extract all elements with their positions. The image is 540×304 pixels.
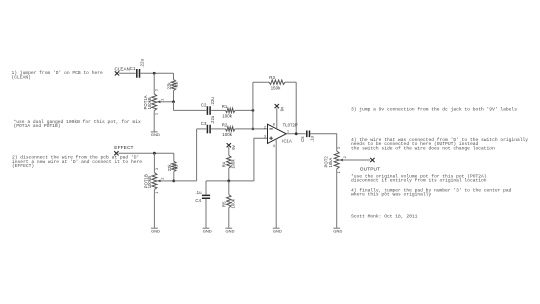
wire C3 to R2	[211, 128, 225, 130]
svg-text:Scott Monk: Oct 18, 2011: Scott Monk: Oct 18, 2011	[351, 214, 418, 220]
POT2 wiper arrow	[341, 159, 370, 161]
svg-text:3: 3	[264, 135, 266, 139]
svg-text:R5: R5	[222, 201, 227, 207]
svg-text:.22u: .22u	[210, 115, 215, 124]
wire corner down to R6	[173, 73, 175, 79]
potentiometer POT1B zigzag	[152, 173, 157, 190]
svg-text:10kA: 10kA	[328, 157, 333, 167]
node CLEAN X terminal	[115, 71, 119, 75]
potentiometer POT1A zigzag	[152, 94, 157, 111]
POT1A bottom lead	[153, 111, 155, 132]
svg-text:.22u: .22u	[139, 58, 144, 67]
POT1B bottom lead	[153, 189, 155, 228]
svg-text:150k: 150k	[271, 85, 281, 90]
svg-text:1: 1	[287, 129, 289, 133]
resistor R1 zigzag	[226, 108, 236, 112]
svg-text:GND: GND	[151, 132, 160, 137]
svg-text:C3: C3	[201, 121, 207, 126]
svg-text:GND: GND	[273, 229, 282, 234]
svg-text:.22u: .22u	[210, 97, 215, 106]
node junction at pin2 line	[252, 128, 255, 131]
note 7 text (right)	[351, 188, 512, 198]
POT2 bottom lead	[336, 169, 338, 228]
svg-text:TL072P: TL072P	[283, 123, 298, 128]
svg-text:R1: R1	[222, 104, 228, 109]
svg-text:C5: C5	[300, 136, 305, 142]
node output junction	[295, 132, 298, 135]
note 6 text (right)	[351, 173, 487, 183]
svg-text:IC1A: IC1A	[282, 139, 292, 144]
svg-text:8: 8	[273, 123, 275, 127]
wire junction down to pin2 line	[252, 110, 254, 128]
svg-text:100k: 100k	[222, 132, 232, 137]
potentiometer POT2 zigzag	[334, 151, 339, 169]
svg-text:OUTPUT: OUTPUT	[360, 167, 380, 173]
potentiometer POT1B top lead	[153, 153, 155, 172]
wire corner down to R7	[173, 153, 175, 161]
svg-text:3) jump a 9v connection from t: 3) jump a 9v connection from the dc jack…	[351, 106, 517, 112]
svg-text:GND: GND	[226, 229, 235, 234]
note 1 text	[12, 70, 104, 80]
resistor R4 zigzag	[227, 155, 231, 168]
wire C1 to corner above R6	[141, 72, 174, 74]
svg-text:the switch side of the wire do: the switch side of the wire does not cha…	[351, 145, 495, 151]
ground under C4	[203, 228, 212, 233]
wire op-amp output	[286, 133, 306, 135]
node junction EFFECT/POT1B	[153, 152, 156, 155]
note 5 text (right)	[351, 137, 528, 151]
resistor R7 zigzag	[172, 161, 176, 171]
wire C5 to corner above POT2	[311, 134, 337, 151]
potentiometer POT1A top lead	[153, 73, 155, 94]
svg-text:22k: 22k	[167, 163, 172, 171]
svg-text:4: 4	[273, 144, 275, 148]
svg-text:1: 1	[155, 192, 159, 194]
node junction wiper/R7	[172, 180, 175, 183]
wire feedback right vertical	[295, 82, 297, 134]
ground under POT2	[333, 228, 342, 233]
svg-text:GND: GND	[151, 229, 160, 234]
svg-text:100k: 100k	[230, 159, 235, 169]
wire 9V to R4	[228, 147, 230, 155]
wire R7 bottom to wiper junction	[173, 172, 175, 181]
svg-text:22k: 22k	[167, 82, 172, 90]
wire bias line C4 to pin3 corner	[206, 180, 254, 182]
wire C3 input drop to effect line	[196, 129, 198, 181]
svg-text:R4: R4	[222, 161, 227, 167]
capacitor C2 plates	[207, 106, 210, 115]
wire pin3 riser	[254, 138, 268, 181]
wire EFFECT to corner above R7	[119, 152, 174, 154]
svg-text:R6: R6	[174, 81, 179, 87]
ground under R5	[225, 228, 234, 233]
svg-text:2: 2	[160, 99, 164, 101]
capacitor C4 bottom lead	[205, 199, 207, 228]
wire R2 to op-amp pin 2	[235, 128, 268, 130]
resistor R3 zigzag	[269, 80, 285, 84]
svg-text:(POT1A and POT1B): (POT1A and POT1B)	[14, 123, 61, 129]
svg-text:2: 2	[343, 156, 347, 158]
POT1B wiper arrow	[159, 180, 174, 182]
resistor R6 zigzag	[171, 80, 175, 91]
svg-text:C4: C4	[195, 198, 201, 203]
wire R6 bottom to wiper junction	[173, 91, 175, 102]
svg-text:EFFECT: EFFECT	[114, 145, 133, 151]
wire junction down to C2 line	[173, 102, 175, 111]
svg-text:100kB: 100kB	[147, 176, 152, 188]
node OUTPUT X terminal	[370, 158, 374, 162]
svg-text:(CLEAN): (CLEAN)	[12, 75, 31, 81]
ground under POT1B	[151, 228, 160, 233]
wire pin 8 power	[276, 108, 278, 129]
wire R5 to ground	[228, 208, 230, 228]
wire wiper line to C3 drop	[174, 180, 197, 182]
svg-text:100k: 100k	[222, 114, 232, 119]
wire C2 to R1	[211, 109, 225, 111]
svg-text:CLEAN: CLEAN	[115, 66, 130, 71]
node divider junction	[227, 180, 230, 183]
op-amp plus sign	[269, 137, 272, 140]
svg-text:1: 1	[337, 171, 341, 173]
wire C2 line left segment	[174, 109, 207, 111]
svg-text:GND: GND	[203, 229, 212, 234]
note 2 text	[14, 119, 141, 129]
capacitor C1 plates	[137, 69, 140, 78]
svg-text:3: 3	[155, 89, 159, 91]
node junction wiper/R6	[172, 100, 175, 103]
svg-text:3: 3	[155, 168, 159, 170]
svg-text:100k: 100k	[230, 198, 235, 208]
ground under op-amp	[273, 228, 282, 233]
wire divider junction to R5	[228, 181, 230, 195]
svg-text:2: 2	[161, 178, 165, 180]
node EFFECT X terminal	[114, 151, 118, 155]
wire feedback left vertical	[252, 82, 254, 110]
resistor R5 zigzag	[227, 195, 231, 208]
wire pin 4 to ground	[275, 139, 277, 228]
svg-text:C1: C1	[130, 66, 136, 71]
wire R4 to divider junction	[228, 168, 230, 181]
note 3 text	[12, 155, 142, 169]
svg-text:C2: C2	[201, 103, 207, 108]
ground under POT1A	[151, 132, 160, 137]
capacitor C4 plates	[202, 195, 210, 198]
node junction C1/POT1A	[153, 72, 156, 75]
svg-text:R2: R2	[222, 122, 228, 127]
wire R1 to summing junction	[235, 109, 253, 111]
svg-text:2: 2	[264, 125, 266, 129]
svg-text:.1u: .1u	[195, 190, 202, 195]
capacitor C5 plates	[307, 131, 310, 138]
svg-text:100kB: 100kB	[147, 97, 152, 109]
POT1A wiper arrow	[159, 101, 174, 103]
svg-text:disconnect it entirely from it: disconnect it entirely from its original…	[351, 178, 487, 184]
op-amp IC1A triangle	[268, 124, 287, 143]
svg-text:3: 3	[337, 147, 341, 149]
svg-text:R7: R7	[174, 163, 179, 169]
op-amp minus sign	[269, 128, 272, 130]
capacitor C3 plates	[207, 125, 210, 134]
node 9V X terminal at op-amp	[275, 104, 279, 108]
wire R3 left	[253, 81, 269, 83]
capacitor C4 top lead	[205, 181, 207, 195]
resistor R2 zigzag	[226, 127, 236, 131]
svg-text:1: 1	[155, 113, 159, 115]
node 9V X terminal at divider	[227, 143, 231, 147]
svg-text:where this pot was originally: where this pot was originally	[351, 192, 431, 198]
wire CLEAN X to C1	[119, 72, 136, 74]
svg-text:(EFFECT): (EFFECT)	[12, 163, 34, 169]
svg-text:GND: GND	[333, 229, 342, 234]
wire R3 right	[285, 81, 296, 83]
node summing junction	[252, 109, 255, 112]
wire C3 line from corner to cap	[197, 128, 207, 130]
